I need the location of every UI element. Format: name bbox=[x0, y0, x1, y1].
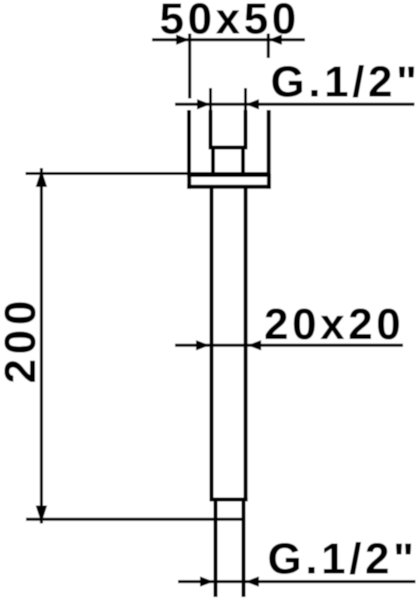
extension line 200 bottom bbox=[26, 518, 246, 521]
ceiling cup right wall bbox=[267, 110, 271, 177]
extension line 200 top bbox=[26, 172, 271, 175]
lower spout right wall bbox=[242, 502, 246, 598]
square tube left wall bbox=[210, 188, 214, 502]
arrow 50x50 left bbox=[176, 35, 190, 45]
ceiling cup left wall bbox=[187, 110, 191, 177]
svg-text:200: 200 bbox=[0, 296, 45, 384]
neck right wall bbox=[241, 148, 245, 178]
arrow 200 bottom bbox=[36, 506, 47, 524]
extension line G.1/2 top left bbox=[209, 88, 212, 110]
svg-text:G.1/2": G.1/2" bbox=[271, 58, 419, 107]
extension line G.1/2 top right bbox=[244, 88, 247, 110]
extension line 50x50 right bbox=[267, 34, 270, 59]
dimension line 200 bbox=[40, 168, 43, 524]
dimension line G.1/2 top bbox=[175, 103, 414, 106]
extension line 50x50 left bbox=[188, 34, 191, 99]
square tube right wall bbox=[244, 188, 248, 502]
dimension line G.1/2 bottom bbox=[178, 580, 416, 583]
svg-text:G.1/2": G.1/2" bbox=[268, 535, 418, 584]
flange plate bbox=[187, 174, 271, 177]
thread pipe right wall top bbox=[244, 110, 248, 148]
flange right edge bbox=[267, 174, 271, 189]
tube bottom shoulder bbox=[210, 498, 248, 502]
arrow G.1/2 top left bbox=[197, 99, 211, 109]
arrow G.1/2 bottom right bbox=[245, 576, 258, 586]
arrow G.1/2 top right bbox=[246, 99, 260, 109]
arrow 50x50 right bbox=[268, 35, 282, 45]
svg-text:20x20: 20x20 bbox=[264, 300, 404, 349]
thread pipe left wall top bbox=[209, 110, 213, 148]
dimension line 50x50 bbox=[152, 38, 305, 41]
arrow 200 top bbox=[36, 170, 47, 188]
arrow 20x20 right bbox=[248, 340, 262, 350]
flange left edge bbox=[187, 174, 191, 189]
arrow G.1/2 bottom left bbox=[200, 576, 214, 586]
arrow 20x20 left bbox=[196, 340, 210, 350]
thread pipe bottom edge bbox=[209, 146, 248, 150]
lower spout left wall bbox=[214, 502, 218, 598]
flange bottom edge bbox=[187, 185, 271, 189]
dimension line 20x20 bbox=[175, 344, 403, 347]
neck left wall bbox=[211, 148, 215, 178]
